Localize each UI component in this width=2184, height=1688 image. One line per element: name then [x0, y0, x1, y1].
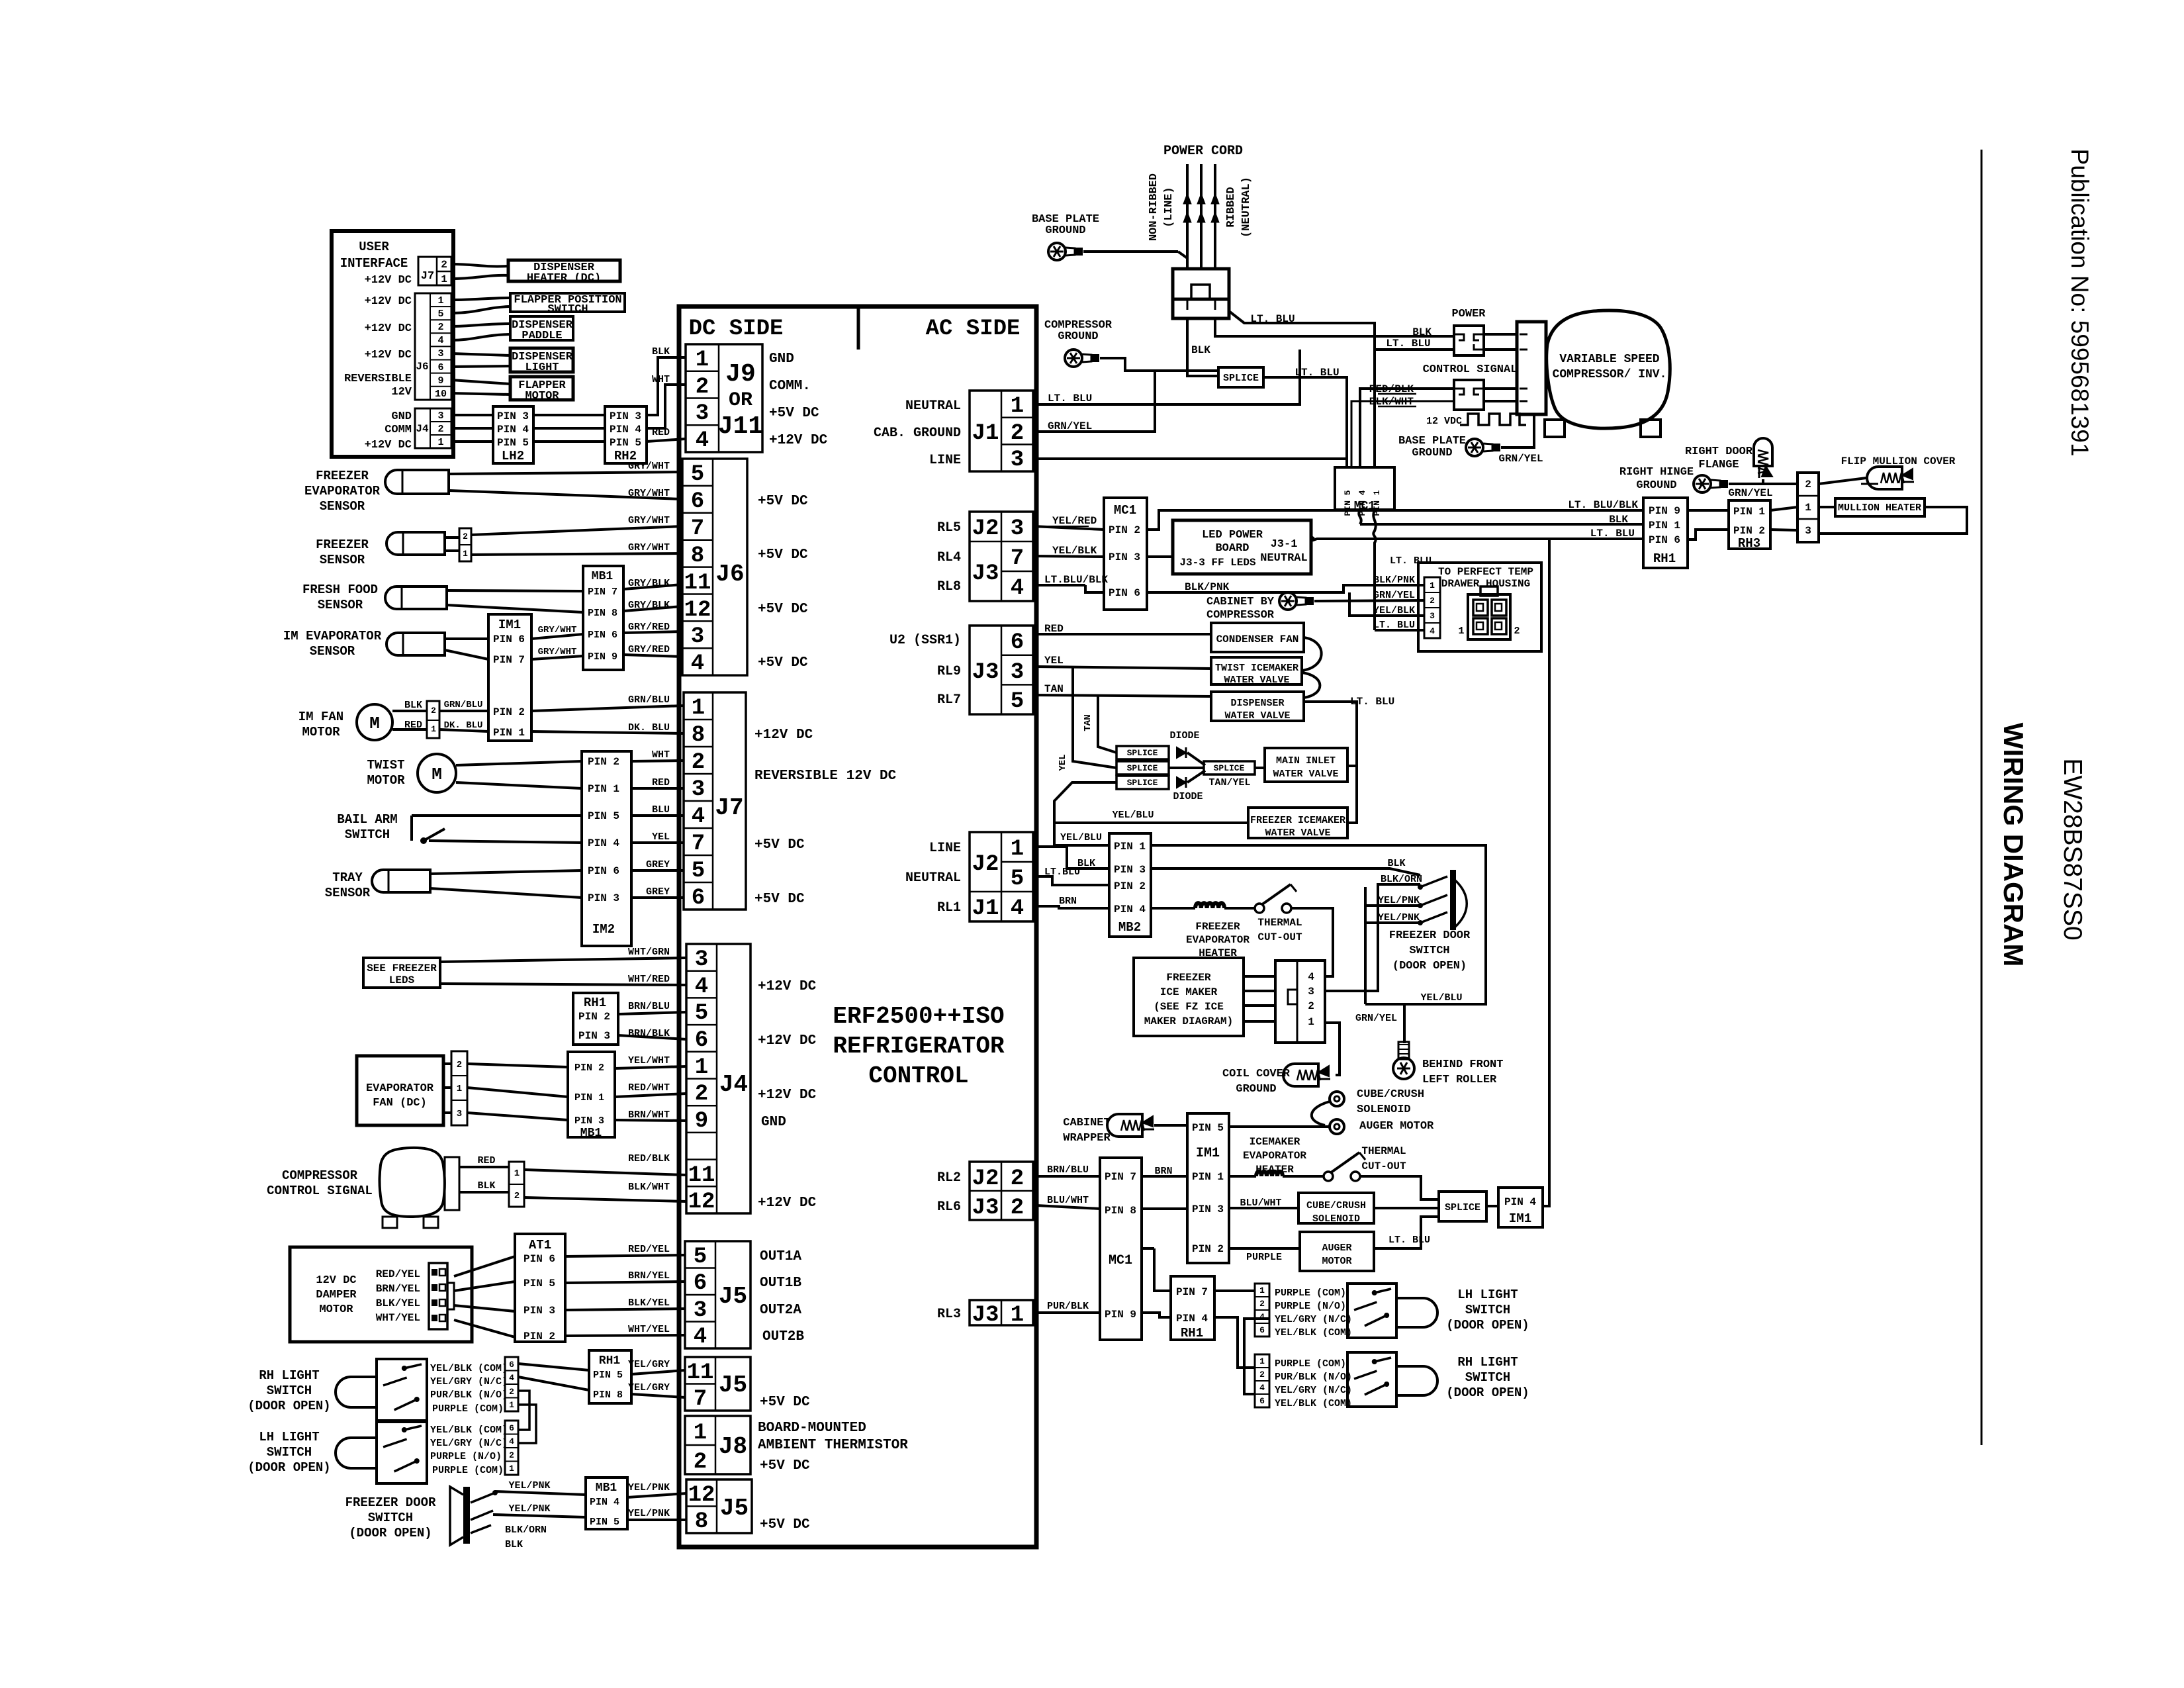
- svg-text:DK. BLU: DK. BLU: [444, 720, 483, 731]
- svg-text:NON-RIBBED: NON-RIBBED: [1148, 173, 1160, 241]
- base plate ground lug (bottom): [1466, 439, 1483, 456]
- svg-text:MC1: MC1: [1114, 503, 1136, 518]
- svg-text:SEE FREEZER: SEE FREEZER: [367, 962, 437, 974]
- svg-text:NEUTRAL: NEUTRAL: [905, 399, 961, 414]
- svg-text:PURPLE: PURPLE: [1246, 1252, 1282, 1263]
- svg-text:1: 1: [437, 437, 443, 448]
- svg-text:PIN 2: PIN 2: [578, 1011, 610, 1023]
- svg-text:MOTOR: MOTOR: [367, 773, 405, 788]
- UI connector J6: [415, 293, 451, 400]
- cabinet wrapper clamp: [1107, 1114, 1142, 1137]
- svg-text:+12V DC: +12V DC: [754, 727, 813, 743]
- wire splice4 to main inlet valve: [1255, 767, 1265, 769]
- svg-text:SENSOR: SENSOR: [318, 598, 363, 612]
- svg-text:TAN/YEL: TAN/YEL: [1208, 777, 1250, 788]
- svg-text:7: 7: [1011, 546, 1024, 571]
- svg-text:RL4: RL4: [937, 550, 961, 565]
- connector RH1 (light): [589, 1350, 631, 1403]
- svg-text:PURPLE (COM): PURPLE (COM): [432, 1403, 504, 1415]
- wires UI J6 to flapper motor: [451, 380, 510, 384]
- svg-text:CUT-OUT: CUT-OUT: [1361, 1160, 1406, 1172]
- svg-text:J4: J4: [719, 1071, 748, 1098]
- svg-text:IM EVAPORATOR: IM EVAPORATOR: [283, 629, 382, 643]
- svg-text:ERF2500++ISO: ERF2500++ISO: [833, 1003, 1004, 1030]
- wires control connector to inverter: [1484, 387, 1517, 390]
- svg-text:1: 1: [509, 1464, 514, 1474]
- main inlet valve right loop: [1347, 765, 1357, 767]
- svg-text:TAN: TAN: [1044, 683, 1064, 695]
- IM fan connector 2/1: [427, 701, 439, 738]
- svg-text:6: 6: [437, 362, 443, 373]
- wires control connector left to MC1: [1360, 389, 1454, 467]
- svg-text:COIL COVER: COIL COVER: [1222, 1068, 1291, 1080]
- compressor blob (control signal): [380, 1148, 445, 1217]
- wires MB1 to J4 1/2/9: [615, 1066, 686, 1068]
- wire cutout to splice (icemaker): [1360, 1176, 1439, 1199]
- evaporator fan dc box: [357, 1056, 443, 1125]
- svg-text:3: 3: [1308, 986, 1314, 998]
- svg-text:SPLICE: SPLICE: [1214, 763, 1245, 773]
- svg-text:6: 6: [1011, 630, 1024, 655]
- svg-text:LT. BLU: LT. BLU: [1295, 367, 1339, 379]
- IM fan motor circle: [357, 704, 392, 740]
- svg-text:REFRIGERATOR: REFRIGERATOR: [833, 1033, 1005, 1060]
- svg-text:SWITCH: SWITCH: [368, 1511, 413, 1525]
- svg-text:EVAPORATOR: EVAPORATOR: [304, 484, 381, 498]
- svg-text:5: 5: [691, 462, 704, 487]
- svg-text:GRN/BLU: GRN/BLU: [444, 700, 483, 710]
- svg-text:ICEMAKER: ICEMAKER: [1250, 1136, 1300, 1148]
- connector J2/J1 LINE NEUTRAL RL1: [970, 832, 1033, 921]
- svg-text:+12V DC: +12V DC: [365, 439, 412, 451]
- connector LH2: [493, 406, 533, 463]
- svg-text:FRESH FOOD: FRESH FOOD: [302, 583, 378, 597]
- 12v dc damper motor box: [290, 1247, 472, 1342]
- svg-text:EVAPORATOR: EVAPORATOR: [366, 1082, 434, 1095]
- svg-text:GRY/WHT: GRY/WHT: [538, 647, 577, 657]
- svg-text:RED/YEL: RED/YEL: [376, 1268, 420, 1280]
- connector J9/J11 pins 1-4: [686, 344, 762, 452]
- svg-text:BEHIND FRONT: BEHIND FRONT: [1422, 1058, 1503, 1071]
- wire cube/crush box to splice: [1374, 1207, 1439, 1209]
- svg-text:YEL/BLK (COM): YEL/BLK (COM): [1275, 1398, 1352, 1409]
- svg-text:OUT2B: OUT2B: [762, 1329, 804, 1344]
- svg-text:FAN (DC): FAN (DC): [373, 1097, 427, 1109]
- mullion heater right loop: [1819, 507, 1967, 534]
- wire J3 RED to condenser fan: [1033, 633, 1211, 635]
- svg-text:PIN 3: PIN 3: [1109, 551, 1140, 563]
- svg-text:GRY/WHT: GRY/WHT: [538, 625, 577, 635]
- power connector box: [1454, 326, 1484, 355]
- wire lug to drawer 2: [1314, 600, 1424, 601]
- wires LH2 to RH2: [533, 414, 605, 416]
- wires evap fan connector to MB1: [467, 1064, 568, 1067]
- wire led board out LT.BLU: [1311, 537, 1314, 541]
- svg-text:WATER VALVE: WATER VALVE: [1273, 769, 1338, 780]
- svg-text:J7: J7: [421, 270, 434, 283]
- mullion heater box: [1835, 498, 1925, 516]
- svg-text:PIN 9: PIN 9: [1105, 1309, 1136, 1321]
- svg-text:RL9: RL9: [937, 664, 961, 679]
- svg-text:+5V DC: +5V DC: [758, 494, 808, 509]
- svg-text:2: 2: [437, 322, 443, 333]
- svg-text:LH LIGHT: LH LIGHT: [259, 1430, 319, 1444]
- svg-text:PURPLE (N/O): PURPLE (N/O): [430, 1451, 502, 1462]
- cabinet by compressor lug: [1279, 592, 1297, 610]
- svg-text:PIN 6: PIN 6: [523, 1253, 555, 1265]
- svg-text:LT. BLU: LT. BLU: [1590, 528, 1635, 539]
- svg-text:DK. BLU: DK. BLU: [628, 722, 670, 733]
- svg-text:NEUTRAL: NEUTRAL: [905, 870, 961, 886]
- svg-text:GRY/RED: GRY/RED: [628, 622, 670, 633]
- svg-text:PIN 4: PIN 4: [588, 837, 619, 849]
- svg-text:OUT1A: OUT1A: [760, 1249, 801, 1264]
- svg-text:AC SIDE: AC SIDE: [926, 316, 1021, 342]
- svg-text:12: 12: [688, 1483, 715, 1508]
- svg-text:5: 5: [692, 859, 705, 884]
- svg-text:RED: RED: [404, 720, 422, 731]
- svg-text:RED: RED: [477, 1155, 495, 1166]
- strip loop between switches: [1244, 1319, 1269, 1394]
- svg-text:1: 1: [441, 273, 447, 285]
- svg-text:SOLENOID: SOLENOID: [1357, 1103, 1411, 1116]
- YEL/PNK stubs to door switch: [1365, 904, 1420, 907]
- svg-text:SWITCH: SWITCH: [547, 303, 588, 316]
- svg-text:PIN 5: PIN 5: [590, 1517, 619, 1528]
- svg-text:PIN 7: PIN 7: [1105, 1171, 1136, 1183]
- svg-text:IM1: IM1: [498, 618, 521, 632]
- svg-text:11: 11: [687, 1360, 714, 1385]
- connector J5 OUT pins: [685, 1241, 751, 1348]
- svg-text:YEL/GRY (N/C): YEL/GRY (N/C): [1275, 1314, 1352, 1325]
- svg-text:3: 3: [691, 624, 704, 649]
- svg-text:BLK: BLK: [1387, 858, 1405, 869]
- svg-text:DRAWER HOUSING: DRAWER HOUSING: [1441, 578, 1530, 590]
- flip mullion cover clamp: [1867, 467, 1902, 489]
- svg-text:2: 2: [509, 1387, 514, 1397]
- svg-text:2: 2: [1514, 626, 1520, 637]
- svg-text:PIN 4: PIN 4: [1176, 1313, 1208, 1325]
- svg-text:LT. BLU/BLK: LT. BLU/BLK: [1568, 499, 1638, 511]
- svg-text:BRN/BLU: BRN/BLU: [628, 1001, 670, 1012]
- svg-text:BLU/WHT: BLU/WHT: [1240, 1197, 1281, 1209]
- svg-text:GRN/YEL: GRN/YEL: [1728, 487, 1772, 499]
- svg-text:LT. BLU: LT. BLU: [1048, 393, 1092, 404]
- svg-text:RL6: RL6: [937, 1199, 961, 1215]
- svg-text:(DOOR OPEN): (DOOR OPEN): [1392, 960, 1467, 972]
- svg-text:YEL/WHT: YEL/WHT: [628, 1055, 670, 1066]
- wire MB2 pin1 YEL/BLU loop right: [1151, 845, 1486, 1004]
- svg-text:+5V DC: +5V DC: [754, 892, 805, 907]
- svg-text:1: 1: [1011, 837, 1024, 862]
- svg-text:RED: RED: [652, 777, 670, 788]
- wire plug BLK down: [1187, 318, 1218, 376]
- svg-text:YEL/PNK: YEL/PNK: [1378, 895, 1420, 906]
- RH strip loop wires: [518, 1391, 529, 1430]
- svg-text:1: 1: [694, 1421, 707, 1446]
- svg-text:+5V DC: +5V DC: [760, 1395, 810, 1410]
- svg-text:BLK: BLK: [1412, 326, 1432, 338]
- svg-text:LEDS: LEDS: [389, 974, 415, 986]
- svg-text:J3: J3: [972, 561, 999, 586]
- right side bus of valves: [1302, 637, 1322, 671]
- variable speed compressor blob: [1547, 310, 1670, 428]
- svg-text:PIN 4: PIN 4: [1504, 1196, 1536, 1208]
- svg-text:COMM.: COMM.: [769, 379, 811, 394]
- svg-text:FREEZER: FREEZER: [1166, 972, 1211, 984]
- svg-text:BLK/ORN: BLK/ORN: [505, 1524, 547, 1536]
- svg-text:RH LIGHT: RH LIGHT: [259, 1368, 319, 1383]
- svg-text:YEL/GRY (N/C): YEL/GRY (N/C): [1275, 1385, 1352, 1396]
- LH light switch bulb: [336, 1438, 377, 1468]
- connector RH2: [605, 406, 647, 463]
- damper motor connector glyph: [429, 1263, 447, 1329]
- svg-text:9: 9: [437, 375, 443, 387]
- svg-text:7: 7: [691, 516, 704, 541]
- svg-text:PIN 1: PIN 1: [1114, 841, 1146, 853]
- svg-text:LT.BLU: LT.BLU: [1044, 867, 1080, 878]
- svg-text:+5V DC: +5V DC: [760, 1458, 810, 1474]
- wire MC1 pin8 to IM1 pin3: [1142, 1207, 1187, 1210]
- svg-text:J5: J5: [719, 1283, 747, 1310]
- svg-text:4: 4: [694, 1325, 707, 1350]
- MC1 bottom hop arcs: [1359, 510, 1361, 524]
- svg-text:LINE: LINE: [929, 841, 961, 856]
- svg-text:BRN: BRN: [1154, 1166, 1172, 1177]
- UI connector J4: [415, 408, 451, 448]
- svg-text:7: 7: [694, 1387, 707, 1412]
- svg-text:GND: GND: [761, 1115, 786, 1130]
- svg-text:BLK: BLK: [1077, 858, 1095, 869]
- LH light switch box: [377, 1421, 427, 1483]
- svg-text:MAIN INLET: MAIN INLET: [1276, 755, 1336, 767]
- svg-text:YEL/GRY: YEL/GRY: [628, 1382, 670, 1393]
- connector RH1 (bottom): [1171, 1276, 1214, 1340]
- wire MC1 pin2 up to long wire: [1147, 510, 1159, 530]
- svg-text:3: 3: [695, 947, 708, 972]
- svg-text:4: 4: [691, 651, 704, 677]
- svg-text:7: 7: [692, 831, 705, 857]
- main control board ERF2500 outline: [679, 306, 1036, 1547]
- svg-text:3: 3: [692, 777, 705, 802]
- svg-text:(DOOR OPEN): (DOOR OPEN): [349, 1526, 432, 1540]
- cube/crush solenoid box: [1298, 1193, 1374, 1223]
- svg-text:2: 2: [695, 1082, 708, 1107]
- svg-text:1: 1: [1011, 1303, 1024, 1328]
- svg-text:IM2: IM2: [592, 922, 615, 937]
- svg-text:SWITCH: SWITCH: [1409, 945, 1449, 957]
- svg-text:PIN 3: PIN 3: [523, 1305, 555, 1317]
- wire compressor ground: [1100, 358, 1218, 371]
- thermal cutout (icemaker): [1324, 1172, 1333, 1181]
- svg-text:FREEZER: FREEZER: [316, 469, 369, 483]
- svg-text:(NEUTRAL): (NEUTRAL): [1240, 177, 1253, 238]
- wires RH1 to J4 5/6: [618, 1012, 686, 1014]
- svg-text:RED: RED: [652, 427, 670, 438]
- svg-text:MC1: MC1: [1109, 1253, 1132, 1268]
- svg-text:YEL: YEL: [1058, 754, 1068, 771]
- svg-text:PIN 2: PIN 2: [523, 1331, 555, 1342]
- svg-text:TRAY: TRAY: [332, 870, 363, 885]
- dispenser paddle box: [510, 316, 573, 340]
- svg-text:BLK/YEL: BLK/YEL: [628, 1297, 670, 1309]
- svg-text:1: 1: [1259, 1356, 1265, 1366]
- wire MC1 vertical to RH1 pin7: [1154, 1248, 1171, 1291]
- svg-text:TAN: TAN: [1083, 714, 1093, 731]
- svg-text:PIN 3: PIN 3: [574, 1115, 604, 1127]
- svg-text:MOTOR: MOTOR: [319, 1303, 353, 1316]
- wire J2 NEUTRAL LT.BLU to MB2 pin2: [1033, 876, 1109, 885]
- coil cover ground clamp: [1283, 1064, 1318, 1086]
- diode top: [1177, 747, 1186, 758]
- svg-text:HEATER (DC): HEATER (DC): [527, 272, 601, 285]
- wires freezer door switch to MB1: [495, 1491, 586, 1495]
- svg-text:J3-3 FF LEDS: J3-3 FF LEDS: [1179, 557, 1256, 569]
- svg-text:AUGER MOTOR: AUGER MOTOR: [1359, 1120, 1434, 1133]
- svg-text:4: 4: [1259, 1383, 1265, 1393]
- svg-text:OUT2A: OUT2A: [760, 1303, 801, 1318]
- svg-text:LT. BLU: LT. BLU: [1390, 555, 1432, 567]
- svg-text:2: 2: [1011, 421, 1024, 446]
- freezer sensor bulb: [387, 532, 445, 555]
- svg-text:AMBIENT THERMISTOR: AMBIENT THERMISTOR: [758, 1438, 908, 1453]
- svg-text:J1: J1: [972, 896, 999, 921]
- svg-text:RED/YEL: RED/YEL: [628, 1244, 670, 1255]
- svg-text:GRN/YEL: GRN/YEL: [1355, 1013, 1397, 1024]
- svg-text:LT. BLU: LT. BLU: [1386, 338, 1430, 350]
- svg-text:WHT/YEL: WHT/YEL: [376, 1312, 420, 1324]
- svg-text:PURPLE (COM): PURPLE (COM): [432, 1465, 504, 1476]
- svg-text:IM1: IM1: [1509, 1211, 1531, 1226]
- connector J6 pins: [682, 459, 747, 675]
- wires MB1 freezer door to J5 12/8: [627, 1493, 686, 1497]
- svg-text:6: 6: [1259, 1325, 1265, 1335]
- svg-text:PUR/BLK (N/O): PUR/BLK (N/O): [1275, 1372, 1352, 1383]
- svg-text:RL2: RL2: [937, 1170, 961, 1186]
- svg-text:8: 8: [691, 543, 704, 569]
- svg-text:YEL/PNK: YEL/PNK: [1378, 912, 1420, 923]
- freezer door switch (right) blades: [1450, 870, 1456, 930]
- connector RH3: [1729, 500, 1770, 549]
- splice box 1: [1116, 746, 1169, 759]
- svg-text:GRN/BLU: GRN/BLU: [628, 694, 670, 706]
- svg-text:1: 1: [437, 295, 443, 306]
- svg-text:IM FAN: IM FAN: [298, 710, 343, 724]
- svg-text:RH1: RH1: [599, 1354, 621, 1368]
- svg-text:THERMAL: THERMAL: [1257, 917, 1302, 929]
- compressor 1/2 connector: [509, 1162, 524, 1207]
- svg-text:TWIST ICEMAKER: TWIST ICEMAKER: [1215, 663, 1298, 674]
- vertical TAN wire: [1098, 696, 1116, 753]
- svg-text:AT1: AT1: [529, 1238, 551, 1252]
- compressor feet: [383, 1217, 397, 1228]
- svg-text:SWITCH: SWITCH: [345, 827, 390, 842]
- svg-text:CUT-OUT: CUT-OUT: [1257, 931, 1302, 943]
- svg-text:1: 1: [463, 549, 468, 559]
- svg-text:BLK/YEL: BLK/YEL: [376, 1297, 420, 1309]
- wires see freezer leds to J4 3/4: [440, 958, 686, 962]
- svg-text:BAIL ARM: BAIL ARM: [337, 812, 397, 827]
- svg-text:3: 3: [696, 401, 709, 426]
- svg-text:SWITCH: SWITCH: [267, 1445, 312, 1460]
- svg-text:J1: J1: [972, 421, 999, 446]
- freezer door switch symbol (bottom): [463, 1487, 470, 1544]
- wire cutout to icemaker connector pin4: [1291, 908, 1333, 976]
- connector MB1 (sensors): [583, 566, 623, 670]
- svg-text:GRY/WHT: GRY/WHT: [628, 542, 670, 553]
- svg-text:RED/WHT: RED/WHT: [628, 1082, 670, 1094]
- svg-text:BLK: BLK: [505, 1539, 523, 1550]
- svg-text:PIN 4: PIN 4: [590, 1497, 619, 1508]
- svg-text:FREEZER DOOR: FREEZER DOOR: [345, 1495, 436, 1510]
- long wire LT.BLU to RH1: [1311, 539, 1643, 541]
- svg-text:FREEZER ICEMAKER: FREEZER ICEMAKER: [1250, 815, 1345, 826]
- svg-text:CUBE/CRUSH: CUBE/CRUSH: [1357, 1088, 1424, 1101]
- wires AT1 to J5 rows: [565, 1255, 685, 1256]
- svg-text:RL3: RL3: [937, 1307, 961, 1322]
- svg-text:PIN 3: PIN 3: [1114, 864, 1146, 876]
- svg-text:M: M: [369, 714, 380, 733]
- svg-text:YEL: YEL: [652, 831, 670, 843]
- mullion connector 2/1/3: [1797, 473, 1819, 542]
- svg-text:PADDLE: PADDLE: [522, 330, 562, 342]
- svg-text:MULLION HEATER: MULLION HEATER: [1838, 502, 1921, 514]
- svg-text:EVAPORATOR: EVAPORATOR: [1186, 934, 1250, 946]
- svg-text:FREEZER DOOR: FREEZER DOOR: [1389, 929, 1471, 942]
- svg-text:3: 3: [1805, 525, 1811, 537]
- svg-text:AUGER: AUGER: [1322, 1243, 1351, 1254]
- wire icemaker pin1 GRN/YEL down to coil cover ground: [1326, 1023, 1340, 1075]
- wire J1 RL1 BRN to MB2 pin4: [1033, 906, 1109, 908]
- svg-text:6: 6: [509, 1360, 514, 1370]
- svg-text:BLK: BLK: [652, 346, 670, 357]
- wire grn/yel to inverter: [1501, 414, 1534, 447]
- wire YEL/BLU down to MB2 pin1: [1054, 823, 1109, 845]
- svg-text:MOTOR: MOTOR: [1322, 1256, 1351, 1267]
- svg-text:PIN 6: PIN 6: [1649, 534, 1680, 546]
- svg-text:MB1: MB1: [580, 1127, 602, 1140]
- connector MC1 (top): [1335, 467, 1394, 510]
- svg-text:+12V DC: +12V DC: [769, 433, 828, 448]
- svg-text:BRN/YEL: BRN/YEL: [628, 1270, 670, 1282]
- wires freezer ice maker to connector: [1244, 975, 1275, 978]
- svg-text:SENSOR: SENSOR: [310, 644, 355, 659]
- svg-text:J2: J2: [972, 852, 999, 877]
- user interface box: [332, 231, 453, 457]
- svg-text:GRN/YEL: GRN/YEL: [1373, 590, 1415, 601]
- svg-text:12V: 12V: [391, 386, 412, 399]
- freezer icemaker water valve box: [1248, 808, 1347, 838]
- svg-text:1: 1: [457, 1084, 462, 1094]
- svg-text:1: 1: [695, 1055, 708, 1080]
- wires fresh food sensor to MB1: [447, 590, 583, 591]
- connector J8 pins 1/2: [685, 1416, 751, 1474]
- svg-text:+5V DC: +5V DC: [758, 655, 808, 671]
- svg-text:6: 6: [694, 1271, 707, 1296]
- wires MB1 to J6 3/4: [623, 632, 682, 633]
- icemaker evap heater coil: [1229, 1175, 1256, 1178]
- svg-text:PIN 7: PIN 7: [493, 654, 525, 666]
- svg-text:5: 5: [695, 1001, 708, 1026]
- svg-text:CAB. GROUND: CAB. GROUND: [874, 426, 961, 441]
- svg-text:6: 6: [691, 489, 704, 514]
- freezer evaporator heater coil: [1195, 903, 1224, 908]
- connector MB2: [1109, 833, 1151, 937]
- svg-text:+12V DC: +12V DC: [758, 1033, 817, 1049]
- RH light switch bulb: [336, 1377, 377, 1407]
- svg-text:TO PERFECT TEMP: TO PERFECT TEMP: [1438, 566, 1533, 578]
- twist icemaker water valve box: [1211, 657, 1302, 684]
